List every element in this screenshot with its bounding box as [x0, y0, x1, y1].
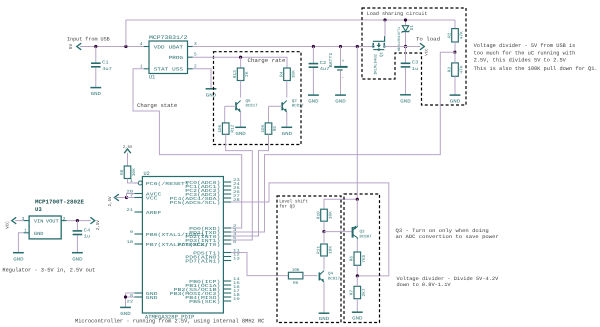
- svg-text:R7: R7: [350, 289, 355, 295]
- wire R4 riser part of PROG net: [286, 56, 288, 58]
- svg-text:10K: 10K: [329, 211, 334, 220]
- svg-text:1u: 1u: [84, 234, 91, 240]
- svg-text:BC817: BC817: [328, 276, 341, 281]
- svg-text:PC6(/RESET): PC6(/RESET): [146, 181, 189, 187]
- svg-text:GND: GND: [13, 256, 24, 262]
- svg-text:Charge state: Charge state: [137, 102, 177, 109]
- capacitor C4: [73, 227, 91, 239]
- svg-text:47K: 47K: [460, 65, 465, 74]
- voltage regulator U3 body: [29, 216, 61, 239]
- svg-text:GND: GND: [72, 256, 83, 262]
- connector 2.5V reset pullup: [123, 145, 133, 166]
- svg-text:GND: GND: [206, 92, 217, 98]
- text Input from USB: [67, 37, 110, 43]
- svg-text:Q2: Q2: [292, 99, 298, 104]
- text voltage divider note: [474, 43, 598, 72]
- svg-text:UBAT: UBAT: [169, 44, 184, 50]
- svg-text:PB5(SCK): PB5(SCK): [189, 299, 220, 305]
- wire R3 to ground: [454, 76, 456, 94]
- pin 5 PROG: [169, 53, 197, 61]
- text Charge rate: [248, 57, 286, 64]
- ground GND at C1: [90, 88, 101, 98]
- svg-text:Q4: Q4: [328, 272, 334, 277]
- svg-text:10K: 10K: [218, 124, 223, 133]
- svg-text:2: 2: [63, 217, 66, 222]
- svg-text:R12: R12: [230, 124, 235, 133]
- connector To load VCC: [416, 37, 440, 56]
- svg-text:U3: U3: [35, 206, 42, 213]
- resistor R3: [447, 52, 464, 76]
- node battery sense divider: [356, 274, 359, 277]
- ground GND at U1 VSS: [206, 89, 217, 99]
- svg-text:STAT: STAT: [154, 67, 169, 73]
- svg-text:GND: GND: [235, 131, 246, 137]
- IC U2 right pins: [170, 178, 241, 305]
- svg-text:C2: C2: [320, 60, 327, 66]
- wire battery to Q3 emitter: [356, 47, 358, 200]
- svg-text:21: 21: [126, 208, 134, 213]
- svg-text:MCP73831/2: MCP73831/2: [149, 35, 188, 41]
- svg-text:BC807: BC807: [360, 234, 373, 239]
- ground GND at Q4: [319, 313, 330, 322]
- wire Q4 emitter to ground: [323, 282, 325, 313]
- svg-text:down to 0.8V-1.1V: down to 0.8V-1.1V: [397, 282, 451, 288]
- wire R5 to PD2: [231, 134, 268, 236]
- node VCC out junction: [404, 45, 407, 48]
- svg-text:BC817: BC817: [246, 104, 259, 109]
- svg-text:9: 9: [130, 230, 134, 235]
- svg-text:Regulator - 3-5V in, 2.5V out: Regulator - 3-5V in, 2.5V out: [2, 267, 95, 274]
- connector VCC into U3: [6, 217, 24, 228]
- node level shift mid: [322, 230, 325, 233]
- svg-text:4: 4: [140, 42, 143, 47]
- svg-text:7K5: 7K5: [362, 254, 367, 263]
- wire Q2 base: [269, 106, 283, 123]
- svg-text:10K: 10K: [292, 70, 297, 79]
- svg-text:GND: GND: [352, 316, 363, 322]
- diode D1 schottky: [397, 20, 415, 51]
- svg-text:MCP1700T-2802E: MCP1700T-2802E: [35, 199, 85, 206]
- wire Q5 emitter to ground: [240, 112, 242, 127]
- connector 2.5V into U2 VCC: [108, 194, 126, 206]
- svg-text:R10: R10: [316, 211, 321, 220]
- wire C1 to ground: [95, 68, 97, 88]
- pin 2 VOUT: [46, 217, 67, 225]
- svg-text:2.5V, this divides 5V to 2.5V: 2.5V, this divides 5V to 2.5V: [474, 58, 567, 64]
- svg-text:2,5V: 2,5V: [96, 220, 101, 231]
- ground GND at C2: [308, 95, 319, 105]
- svg-text:C4: C4: [84, 227, 91, 233]
- svg-text:Input from USB: Input from USB: [67, 37, 110, 43]
- wire Q5 base: [225, 106, 236, 123]
- svg-text:for Q3: for Q3: [279, 204, 295, 210]
- svg-text:R3: R3: [447, 66, 452, 72]
- svg-text:MBR120VLSFT1: MBR120VLSFT1: [397, 27, 402, 51]
- svg-text:10K: 10K: [292, 268, 300, 273]
- wire C3 to ground: [405, 68, 407, 95]
- wire VOUT to 2.5V: [67, 220, 91, 222]
- wire R6 to sense node: [356, 265, 358, 276]
- svg-text:GND: GND: [282, 131, 293, 137]
- resistor R10: [316, 209, 333, 221]
- svg-text:R8: R8: [120, 169, 125, 175]
- svg-text:Q5: Q5: [246, 99, 252, 104]
- svg-text:USS: USS: [172, 67, 183, 73]
- text Q3 note: [396, 228, 499, 240]
- IC U2 part name: [145, 314, 195, 321]
- transistor Q5: [236, 99, 258, 112]
- wire Q3 collector to R6: [356, 239, 358, 252]
- svg-text:47K: 47K: [460, 31, 465, 40]
- svg-text:U1: U1: [149, 75, 155, 81]
- wire BATT1 to ground: [340, 71, 342, 95]
- svg-text:GND: GND: [319, 316, 330, 322]
- ground GND at C3: [400, 95, 411, 105]
- dashed box Load sharing circuit: [362, 8, 466, 105]
- wire U2 ground tie: [126, 293, 135, 307]
- transistor Q3 PNP: [353, 226, 373, 240]
- node battery sense junction: [356, 45, 359, 48]
- svg-text:2K: 2K: [245, 71, 250, 77]
- svg-text:PD7(AIN1): PD7(AIN1): [185, 258, 220, 264]
- wire R10 to mid node: [323, 221, 325, 231]
- svg-text:10K: 10K: [329, 245, 334, 254]
- transistor Q1 P-MOSFET: [372, 36, 385, 75]
- dashed box Q3: [344, 194, 380, 323]
- resistor R5: [261, 123, 278, 134]
- wire PROG to R4: [193, 57, 287, 68]
- node BATT1 junction: [339, 45, 342, 48]
- wire C1 riser: [95, 47, 97, 63]
- svg-text:Voltage divider - 5V from USB: Voltage divider - 5V from USB is: [474, 43, 576, 49]
- text Level shift for Q3: [279, 199, 308, 210]
- svg-text:U2: U2: [144, 171, 150, 177]
- node Q1 gate junction: [383, 18, 386, 21]
- resistor R4: [279, 68, 296, 81]
- svg-text:10: 10: [126, 240, 134, 245]
- pin 3 VIN: [22, 217, 44, 225]
- node USB-C1 junction: [94, 45, 97, 48]
- svg-text:VCC: VCC: [146, 195, 158, 201]
- dashed box Charge rate: [214, 52, 302, 145]
- svg-text:VIN: VIN: [34, 219, 44, 225]
- svg-text:10K: 10K: [261, 124, 266, 133]
- wire C4 riser: [76, 221, 78, 231]
- ground GND at R7: [352, 312, 363, 321]
- resistor R12: [218, 123, 235, 134]
- svg-text:Charge rate: Charge rate: [248, 57, 286, 64]
- svg-text:VDD: VDD: [154, 44, 165, 50]
- battery BATT1: [329, 52, 348, 81]
- node PROG-R13 junction: [239, 56, 242, 59]
- capacitor C2: [309, 60, 330, 72]
- svg-text:R11: R11: [316, 245, 321, 254]
- wire Q1 gate riser: [384, 20, 386, 37]
- svg-text:6: 6: [233, 240, 237, 245]
- svg-text:Q3: Q3: [360, 229, 366, 234]
- wire C2 riser: [312, 47, 314, 64]
- connector J1 pin 5V: [69, 43, 81, 50]
- wire R2 to divider node: [454, 42, 456, 52]
- svg-text:VCC: VCC: [6, 221, 11, 229]
- wire Q3 emitter lead: [356, 199, 358, 225]
- svg-text:D1: D1: [410, 25, 415, 31]
- IC U3 MCP1700 title: [35, 199, 85, 214]
- node D1 anode junction: [404, 18, 407, 21]
- svg-text:This is also the 100K pull dow: This is also the 100K pull down for Q1.: [474, 66, 598, 72]
- transistor Q2: [282, 99, 304, 112]
- wire load output: [384, 46, 420, 48]
- IC U2 body: [142, 171, 223, 313]
- capacitor C1: [91, 60, 112, 72]
- svg-text:PC5(ADC5/SCL): PC5(ADC5/SCL): [170, 200, 221, 206]
- ground GND at U2: [120, 307, 131, 317]
- wire R12 to PD3: [226, 134, 253, 240]
- resistor R11: [316, 232, 333, 256]
- svg-text:1u: 1u: [412, 66, 419, 72]
- node divider junction: [453, 51, 456, 54]
- svg-text:5V: 5V: [69, 44, 74, 50]
- svg-text:Load sharing circuit: Load sharing circuit: [367, 11, 428, 17]
- wire R7 to ground: [356, 299, 358, 312]
- wire VBAT rail: [193, 46, 373, 48]
- svg-text:R4: R4: [279, 71, 284, 77]
- wire USB 5V to U1 VDD: [80, 46, 144, 48]
- node C4 junction: [76, 219, 79, 222]
- svg-text:GND: GND: [146, 295, 158, 301]
- wire R4 to Q2 collector: [286, 81, 288, 98]
- text Load sharing circuit: [367, 11, 428, 17]
- wire R8 to reset pin: [128, 179, 139, 184]
- svg-text:BC817: BC817: [292, 104, 305, 109]
- svg-text:GND: GND: [450, 99, 461, 105]
- svg-text:13: 13: [233, 257, 241, 262]
- svg-text:-: -: [341, 76, 344, 81]
- node AVCC-VCC tie: [125, 196, 128, 199]
- svg-text:R13: R13: [233, 70, 238, 79]
- svg-text:22: 22: [126, 300, 134, 305]
- svg-text:2,5V: 2,5V: [108, 196, 113, 207]
- resistor R8: [120, 166, 137, 179]
- wire C2 to ground: [312, 68, 314, 95]
- IC U1 MCP73831/2 title: [149, 35, 188, 41]
- wire STAT to PD0: [133, 69, 242, 228]
- wire VCC to R10: [324, 199, 357, 209]
- svg-text:R2: R2: [447, 32, 452, 38]
- svg-text:GND: GND: [91, 91, 102, 97]
- resistor R7: [350, 276, 367, 299]
- wire mid node to Q3 base: [324, 231, 354, 233]
- svg-text:R9: R9: [293, 281, 299, 286]
- ground GND at Q5: [235, 127, 246, 137]
- text microcontroller caption: [75, 318, 265, 325]
- svg-text:+: +: [342, 59, 345, 64]
- wire C3 riser: [405, 47, 407, 63]
- ground GND at R3: [450, 95, 461, 105]
- svg-text:19: 19: [233, 297, 241, 302]
- wire AVCC tie: [127, 194, 135, 198]
- svg-text:8: 8: [130, 294, 134, 299]
- svg-text:GND: GND: [34, 231, 44, 237]
- dashed box Level shift: [277, 196, 341, 323]
- wire BATT1 riser: [340, 47, 342, 67]
- svg-text:GND: GND: [120, 311, 131, 317]
- wire R13 riser: [240, 57, 242, 68]
- pin 1 STAT: [140, 64, 169, 72]
- pin 3 VBAT: [169, 42, 197, 50]
- svg-text:To load: To load: [416, 37, 440, 43]
- resistor R6: [350, 252, 367, 265]
- svg-text:2K7: 2K7: [362, 288, 367, 297]
- wire top rail to R2: [454, 20, 456, 29]
- wire Q2 emitter to ground: [286, 112, 288, 127]
- wire U3 GND to ground: [18, 233, 23, 252]
- node Q3 emitter junction: [356, 198, 359, 201]
- wire top 5V rail: [126, 19, 455, 21]
- capacitor C3: [401, 60, 419, 72]
- svg-text:too much for the uC running wi: too much for the uC running with: [474, 50, 576, 56]
- pin 1 GND: [24, 228, 44, 236]
- svg-text:AREF: AREF: [146, 210, 162, 216]
- svg-text:an ADC convertion to save powe: an ADC convertion to save power: [396, 234, 499, 240]
- wire R11 to Q4 collector: [323, 256, 325, 270]
- svg-text:1: 1: [24, 228, 27, 233]
- wire divider to PD1: [231, 52, 455, 232]
- svg-text:GND: GND: [308, 99, 319, 105]
- svg-text:Q1: Q1: [380, 52, 385, 58]
- ground GND at C4: [72, 253, 83, 263]
- svg-text:VOUT: VOUT: [46, 219, 59, 225]
- text battery divider note: [397, 276, 499, 288]
- ground GND at Q2: [281, 127, 292, 137]
- svg-text:IRLML6402: IRLML6402: [373, 53, 378, 75]
- resistor R2: [447, 29, 464, 42]
- svg-text:C3: C3: [412, 60, 419, 66]
- transistor Q4: [319, 271, 340, 283]
- svg-text:PROG: PROG: [169, 55, 184, 61]
- wire C4 to ground: [76, 235, 78, 252]
- text regulator caption: [2, 267, 95, 274]
- node U2 ground junction: [124, 295, 127, 298]
- svg-text:C1: C1: [102, 60, 109, 66]
- ground GND at BATT1: [335, 95, 346, 105]
- resistor R9 horizontal: [288, 268, 317, 286]
- svg-text:10K: 10K: [132, 168, 137, 177]
- wire VSS to ground: [193, 69, 211, 89]
- svg-text:R5: R5: [273, 125, 278, 131]
- node USB top-line junction: [124, 45, 127, 48]
- svg-text:Microcontroller - running from: Microcontroller - running from 2.5V, usi…: [75, 318, 265, 325]
- svg-text:GND: GND: [400, 98, 411, 104]
- node C2 junction: [312, 45, 315, 48]
- svg-text:BATT1: BATT1: [329, 52, 334, 67]
- svg-text:GND: GND: [335, 99, 346, 105]
- text Charge state: [137, 102, 177, 109]
- pin 2 VSS: [172, 64, 197, 72]
- wire R13 to Q5 collector: [240, 81, 242, 98]
- ground GND at U3: [13, 253, 24, 263]
- wire USB riser to top rail: [125, 20, 127, 47]
- op-amp U1 body: [149, 41, 188, 81]
- connector 2.5V output: [90, 217, 100, 230]
- pin 4 VDD: [140, 42, 165, 50]
- IC U2 left pins: [126, 179, 208, 305]
- svg-text:PD4(XCK/T0): PD4(XCK/T0): [178, 242, 221, 248]
- wire PC5 to battery divider: [231, 183, 389, 276]
- resistor R13: [233, 68, 250, 81]
- svg-text:4u7: 4u7: [102, 66, 112, 72]
- wire R9 to PD5: [231, 253, 288, 276]
- svg-text:VCC: VCC: [425, 48, 430, 56]
- svg-text:R6: R6: [350, 255, 355, 261]
